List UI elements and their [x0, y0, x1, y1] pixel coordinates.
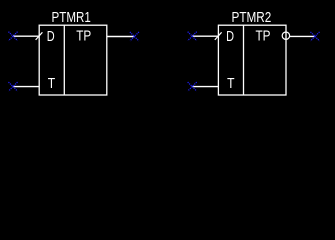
PTMR1 pin D edge slash	[36, 32, 43, 40]
unconnected-end X marker at PTMR2 D wire	[188, 32, 197, 41]
svg-text:TP: TP	[76, 28, 91, 45]
svg-text:PTMR1: PTMR1	[52, 10, 91, 26]
wire from PTMR2 pin TP output	[290, 35, 315, 37]
svg-text:T: T	[227, 75, 234, 92]
wire to PTMR2 pin D	[192, 35, 218, 37]
PTMR2 pin D edge slash	[215, 32, 222, 40]
PTMR2 internal divider	[243, 25, 245, 95]
wire to PTMR2 pin T	[192, 86, 218, 88]
timer PTMR2 body	[218, 25, 286, 95]
unconnected-end X marker at PTMR1 TP wire	[130, 32, 139, 41]
svg-text:TP: TP	[256, 28, 271, 45]
wire to PTMR1 pin T	[13, 86, 39, 88]
svg-text:D: D	[47, 28, 55, 45]
wire to PTMR1 pin D	[13, 35, 39, 37]
svg-text:PTMR2: PTMR2	[232, 10, 272, 26]
unconnected-end X marker at PTMR2 T wire	[188, 82, 197, 91]
wire from PTMR1 pin TP output	[107, 36, 135, 38]
unconnected-end X marker at PTMR2 TP wire	[311, 32, 320, 41]
PTMR1 internal divider	[63, 25, 65, 95]
unconnected-end X marker at PTMR1 T wire	[9, 82, 18, 91]
unconnected-end X marker at PTMR1 D wire	[9, 32, 18, 41]
svg-text:D: D	[226, 28, 234, 45]
PTMR2 TP output inversion bubble	[282, 32, 289, 39]
svg-text:T: T	[48, 75, 55, 92]
timer PTMR1 body	[39, 25, 107, 95]
